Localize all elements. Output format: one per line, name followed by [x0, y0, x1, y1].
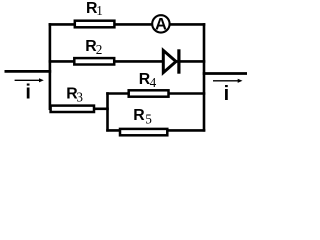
svg-text:A: A: [155, 16, 167, 34]
right current arrowhead: [238, 79, 243, 83]
wire: parallel sub-network left vertical: [106, 92, 109, 131]
wire: right lead: [203, 72, 247, 75]
diode D1 cathode bar: [177, 49, 180, 73]
right current arrow shaft: [213, 80, 239, 82]
wire: R5 row: [106, 129, 205, 132]
wire: R3 to node junction: [94, 108, 109, 111]
resistor R3: [51, 106, 94, 112]
wire: left vertical bus: [49, 23, 52, 110]
svg-text:i: i: [25, 82, 31, 104]
wire: middle branch row 2: [49, 60, 206, 63]
svg-text:4: 4: [150, 75, 157, 90]
svg-text:i: i: [224, 83, 230, 105]
left current arrowhead: [39, 78, 44, 82]
ammeter U1 circle: [152, 15, 169, 32]
svg-text:3: 3: [76, 90, 83, 105]
diode D1 triangle: [163, 50, 176, 72]
resistor R5: [120, 129, 167, 135]
svg-text:2: 2: [96, 42, 103, 57]
wire: R4 row: [106, 92, 205, 95]
resistor R2: [74, 58, 114, 64]
left current arrow shaft: [15, 79, 40, 81]
wire: left lead: [5, 70, 52, 73]
resistor R4: [129, 90, 169, 96]
resistor R1: [75, 21, 115, 28]
svg-text:5: 5: [145, 112, 152, 127]
svg-text:1: 1: [96, 3, 103, 18]
wire: top branch row 1: [49, 23, 206, 26]
svg-text:R: R: [133, 107, 145, 124]
wire: right vertical bus: [203, 23, 206, 132]
